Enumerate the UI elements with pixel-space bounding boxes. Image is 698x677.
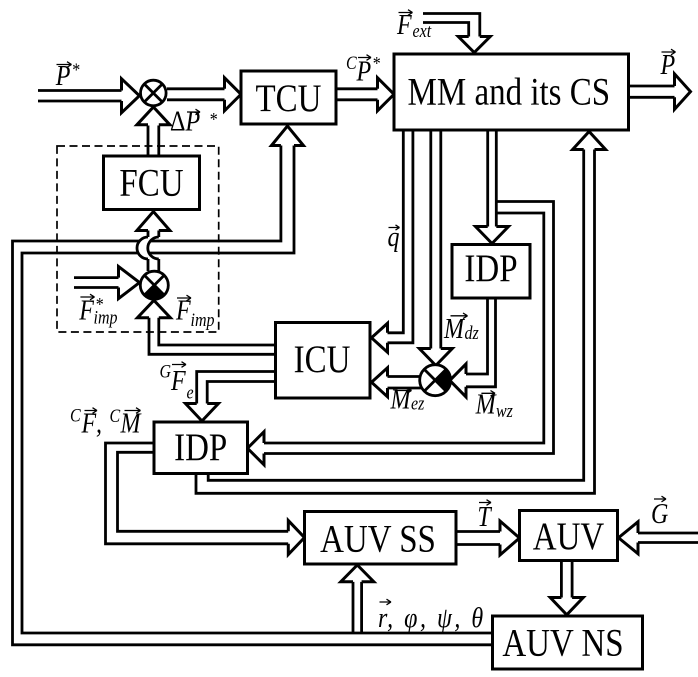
svg-text:T: T (477, 500, 492, 533)
svg-text:AUV NS: AUV NS (502, 621, 623, 664)
svg-text:*: * (72, 59, 80, 81)
svg-text:AUV SS: AUV SS (320, 517, 436, 560)
svg-text:P: P (660, 48, 676, 81)
svg-text:Δ: Δ (170, 104, 185, 137)
svg-text:IDP: IDP (464, 246, 517, 289)
svg-text:FCU: FCU (119, 161, 183, 204)
svg-text:ez: ez (411, 392, 424, 414)
svg-text:ext: ext (413, 20, 433, 42)
svg-text:C: C (70, 404, 81, 426)
svg-text:q: q (388, 220, 400, 253)
svg-text:wz: wz (496, 400, 513, 422)
svg-text:*: * (372, 52, 380, 74)
svg-text:C: C (346, 52, 357, 74)
svg-text:imp: imp (191, 309, 215, 331)
svg-text:e: e (187, 381, 194, 403)
svg-text:*: * (209, 108, 217, 130)
svg-text:AUV: AUV (533, 514, 604, 557)
svg-text:P: P (55, 59, 71, 92)
svg-text:TCU: TCU (256, 76, 322, 119)
svg-text:imp: imp (94, 306, 118, 328)
svg-text:G: G (651, 497, 668, 530)
svg-text:MM and its CS: MM and its CS (408, 70, 611, 113)
svg-text:ICU: ICU (294, 337, 351, 380)
svg-text:G: G (160, 360, 172, 382)
svg-text:C: C (110, 405, 121, 427)
svg-text:F: F (81, 406, 97, 439)
svg-text:r, φ, ψ, θ: r, φ, ψ, θ (378, 601, 486, 634)
svg-text:IDP: IDP (174, 425, 227, 468)
svg-text:M: M (390, 382, 413, 415)
svg-text:M: M (443, 312, 466, 345)
svg-text:F: F (170, 364, 186, 397)
svg-text:dz: dz (465, 322, 479, 344)
svg-text:P: P (185, 104, 201, 137)
